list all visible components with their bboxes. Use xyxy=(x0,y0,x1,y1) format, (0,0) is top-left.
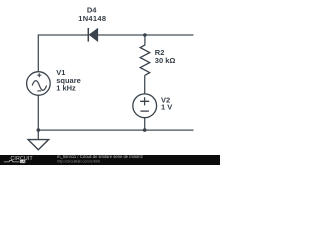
ground stub xyxy=(37,130,39,140)
ground triangle xyxy=(28,140,48,150)
wire R2 branch from top node xyxy=(144,35,146,45)
wire left vertical rail lower xyxy=(37,95,39,130)
svg-text:1 kHz: 1 kHz xyxy=(56,84,76,93)
footer logo waveform line xyxy=(4,160,19,162)
footer black bar xyxy=(0,155,220,165)
source V1 minus sign xyxy=(37,90,41,92)
diode D4 cathode bar xyxy=(87,28,89,42)
svg-text:http://circuitlab.com/c/6hb: http://circuitlab.com/c/6hb xyxy=(57,160,100,164)
svg-text:1 V: 1 V xyxy=(161,102,172,111)
wire top horizontal left segment xyxy=(38,34,88,36)
svg-text:30 kΩ: 30 kΩ xyxy=(155,56,176,65)
svg-text:LAB: LAB xyxy=(21,160,27,164)
source V1 plus sign xyxy=(37,73,41,77)
source V1 circle xyxy=(27,72,51,96)
source V2 plus sign xyxy=(140,97,149,105)
source V2 minus sign xyxy=(140,110,149,112)
svg-text:1N4148: 1N4148 xyxy=(78,14,106,23)
wire bottom horizontal xyxy=(38,129,193,131)
wire top horizontal right segment xyxy=(98,34,194,36)
node junction dot bottom V2 xyxy=(143,128,147,132)
footer logo LAB box xyxy=(20,160,26,163)
source V2 circle xyxy=(133,94,157,118)
svg-text:m_florin11 / Circuit de limita: m_florin11 / Circuit de limitare serie d… xyxy=(57,154,143,159)
wire left vertical rail upper xyxy=(37,34,39,72)
source V1 sine wave xyxy=(32,81,46,91)
wire resistor to V2 xyxy=(144,75,146,94)
diode D4 triangle xyxy=(89,28,98,41)
node junction dot top xyxy=(143,33,147,37)
wire V2 to bottom xyxy=(144,118,146,131)
node junction dot bottom left xyxy=(37,128,41,132)
resistor R2 zigzag xyxy=(140,45,150,75)
